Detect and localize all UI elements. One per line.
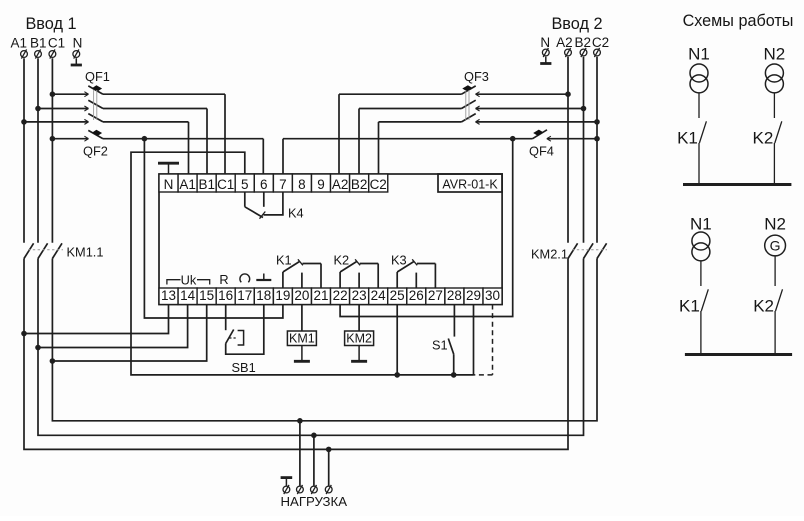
KM2.1 linkage bbox=[572, 249, 607, 251]
wire terminal 14 to B1 bbox=[38, 305, 188, 348]
svg-text:29: 29 bbox=[466, 288, 481, 303]
svg-text:C2: C2 bbox=[592, 35, 609, 50]
svg-text:26: 26 bbox=[409, 288, 424, 303]
svg-text:B2: B2 bbox=[574, 35, 591, 50]
relay contact K3 bbox=[396, 272, 398, 288]
KM1.1 linkage bbox=[28, 249, 63, 251]
svg-text:A2: A2 bbox=[332, 177, 349, 192]
breaker QF3 pole 2 (B2 phase) bbox=[581, 106, 587, 112]
svg-text:27: 27 bbox=[428, 288, 443, 303]
svg-text:QF2: QF2 bbox=[83, 144, 108, 159]
wire B1 below KM1.1 to bus bbox=[38, 259, 584, 436]
contactor KM1.1 pole B1 bbox=[38, 243, 48, 258]
dashed wire terminal 30 bbox=[492, 305, 494, 375]
svg-text:13: 13 bbox=[161, 288, 176, 303]
wire C1 vertical (input1 to KM1.1) bbox=[51, 58, 53, 243]
svg-text:Ввод 2: Ввод 2 bbox=[551, 15, 602, 33]
breaker QF1 pole 1 (C1 phase) bbox=[50, 91, 56, 97]
wire terminal 29 to control line bbox=[473, 305, 475, 375]
svg-text:24: 24 bbox=[371, 288, 387, 303]
svg-text:B1: B1 bbox=[198, 177, 215, 192]
device terminal 21 (bottom row) bbox=[312, 288, 331, 305]
neutral bar input 1 bbox=[75, 58, 77, 65]
device terminal 18 (bottom row) bbox=[254, 288, 273, 305]
svg-text:Uk: Uk bbox=[181, 272, 197, 287]
device terminal 24 (bottom row) bbox=[369, 288, 388, 305]
relay contact K1 bbox=[282, 272, 284, 288]
load terminal N bbox=[283, 486, 290, 493]
svg-text:N1: N1 bbox=[688, 45, 710, 64]
svg-text:25: 25 bbox=[390, 288, 405, 303]
svg-text:QF1: QF1 bbox=[85, 69, 110, 84]
device terminal 8 (top row) bbox=[292, 174, 311, 192]
svg-text:KM1: KM1 bbox=[289, 331, 315, 345]
device terminal 22 (bottom row) bbox=[331, 288, 350, 305]
neutral bar input 2 bbox=[545, 57, 547, 64]
svg-text:N: N bbox=[164, 177, 174, 192]
svg-text:A1: A1 bbox=[11, 36, 28, 51]
load terminal 2 bbox=[311, 486, 318, 493]
svg-text:QF3: QF3 bbox=[464, 69, 489, 84]
wire terminal 22 to QF4 control line bbox=[340, 139, 513, 317]
svg-text:30: 30 bbox=[485, 288, 500, 303]
pushbutton SB1 (terminals 16-18) bbox=[225, 305, 227, 331]
svg-text:S1: S1 bbox=[432, 337, 448, 352]
device terminal N (top row) bbox=[159, 174, 178, 192]
device terminal 14 (bottom row) bbox=[178, 288, 197, 305]
svg-text:14: 14 bbox=[180, 288, 196, 303]
wire terminal 15 to C1 bbox=[52, 305, 206, 362]
device terminal 26 (bottom row) bbox=[407, 288, 426, 305]
svg-text:K1: K1 bbox=[276, 253, 292, 268]
switch S1 (terminal 28) bbox=[453, 305, 455, 337]
junction QF2 line to terminal 19 drop bbox=[142, 136, 148, 142]
svg-text:N1: N1 bbox=[690, 215, 712, 234]
device terminal A1 (top row) bbox=[178, 174, 197, 192]
breaker QF4 (control phase C2) bbox=[282, 139, 284, 174]
relay contact K2 bbox=[339, 272, 341, 288]
breaker QF2 (control phase C1) bbox=[50, 136, 56, 142]
breaker QF1 pole 3 (A1 phase) bbox=[21, 119, 27, 125]
contactor KM1.1 pole C1 bbox=[52, 243, 62, 258]
load tap phase C bbox=[297, 418, 303, 424]
svg-text:K2: K2 bbox=[334, 253, 350, 268]
svg-text:A1: A1 bbox=[179, 177, 196, 192]
svg-text:N: N bbox=[540, 35, 550, 50]
svg-text:K2: K2 bbox=[753, 296, 774, 315]
load neutral bar bbox=[285, 478, 287, 486]
KM1 ground bbox=[301, 346, 303, 362]
svg-text:21: 21 bbox=[313, 288, 328, 303]
device terminal 9 (top row) bbox=[312, 174, 331, 192]
wire C1 below KM1.1 to bus bbox=[52, 259, 597, 421]
svg-text:18: 18 bbox=[256, 288, 271, 303]
device terminal 16 (bottom row) bbox=[216, 288, 235, 305]
svg-text:QF4: QF4 bbox=[529, 144, 554, 159]
relay contact K4 (terminals 5-6-7) bbox=[244, 192, 246, 207]
device terminal A2 (top row) bbox=[331, 174, 350, 192]
svg-text:17: 17 bbox=[237, 288, 252, 303]
svg-text:Ввод 1: Ввод 1 bbox=[25, 15, 76, 33]
device terminal B1 (top row) bbox=[197, 174, 216, 192]
device terminal 13 (bottom row) bbox=[159, 288, 178, 305]
svg-text:C1: C1 bbox=[48, 36, 65, 51]
svg-text:N2: N2 bbox=[764, 45, 786, 64]
svg-text:B2: B2 bbox=[351, 177, 368, 192]
device terminal 19 (bottom row) bbox=[273, 288, 292, 305]
KM2 ground bbox=[358, 346, 360, 362]
device terminal C1 (top row) bbox=[216, 174, 235, 192]
device terminal B2 (top row) bbox=[350, 174, 369, 192]
svg-text:9: 9 bbox=[317, 177, 325, 192]
device terminal 20 (bottom row) bbox=[292, 288, 311, 305]
contactor coil KM2 bbox=[358, 305, 360, 332]
device terminal 30 (bottom row) bbox=[483, 288, 502, 305]
device terminal 7 (top row) bbox=[273, 174, 292, 192]
load tap phase B bbox=[311, 433, 317, 439]
svg-text:28: 28 bbox=[447, 288, 462, 303]
wire A2 vertical (input2 to KM2.1) bbox=[567, 57, 569, 243]
svg-text:6: 6 bbox=[260, 177, 268, 192]
breaker QF3 linkage bbox=[465, 90, 467, 120]
svg-text:15: 15 bbox=[199, 288, 214, 303]
contactor KM2.1 pole B2 bbox=[584, 243, 594, 258]
contactor KM2.1 pole A2 bbox=[568, 243, 578, 258]
svg-text:8: 8 bbox=[298, 177, 306, 192]
svg-text:НАГРУЗКА: НАГРУЗКА bbox=[281, 494, 348, 509]
neutral bar above device terminal N bbox=[168, 163, 170, 174]
svg-text:C1: C1 bbox=[217, 177, 234, 192]
svg-text:K3: K3 bbox=[391, 253, 407, 268]
svg-text:19: 19 bbox=[275, 288, 290, 303]
device terminal C2 (top row) bbox=[369, 174, 388, 192]
rotation symbol (terminal 17) bbox=[240, 274, 250, 282]
wire A1 vertical (input1 to KM1.1) bbox=[23, 58, 25, 243]
device terminal 27 (bottom row) bbox=[426, 288, 445, 305]
wire terminal 25 to control line bbox=[396, 305, 398, 375]
Uk bracket (terminals 13-15) bbox=[167, 280, 181, 285]
svg-text:N2: N2 bbox=[764, 215, 786, 234]
breaker QF1 linkage bbox=[93, 90, 95, 120]
wire terminal 5 to control bottom line bbox=[131, 152, 474, 375]
wire A1 below KM1.1 to bus bbox=[24, 259, 568, 450]
svg-text:5: 5 bbox=[241, 177, 249, 192]
svg-text:B1: B1 bbox=[30, 36, 47, 51]
svg-text:23: 23 bbox=[352, 288, 367, 303]
wire terminal 13 to A1 bbox=[24, 305, 169, 334]
load terminal 3 bbox=[325, 486, 332, 493]
device terminal 23 (bottom row) bbox=[350, 288, 369, 305]
device terminal 17 (bottom row) bbox=[235, 288, 254, 305]
contactor coil KM1 bbox=[301, 305, 303, 332]
svg-text:16: 16 bbox=[218, 288, 233, 303]
svg-text:20: 20 bbox=[294, 288, 309, 303]
wire C2 vertical (input2 to KM2.1) bbox=[596, 57, 598, 243]
svg-text:R: R bbox=[219, 272, 228, 287]
svg-text:K1: K1 bbox=[679, 296, 700, 315]
svg-text:N: N bbox=[73, 36, 83, 51]
breaker QF3 pole 1 (A2 phase) bbox=[565, 91, 571, 97]
ground symbol (terminal 18) bbox=[263, 274, 265, 281]
load tap phase A bbox=[326, 447, 332, 453]
breaker QF3 pole 3 (C2 phase) bbox=[594, 119, 600, 125]
svg-text:K1: K1 bbox=[677, 128, 698, 147]
svg-text:Схемы работы: Схемы работы bbox=[683, 12, 794, 30]
busbar (scheme) bbox=[685, 353, 792, 356]
contactor KM1.1 pole A1 bbox=[24, 243, 34, 258]
device terminal 6 (top row) bbox=[254, 174, 273, 192]
device terminal 29 (bottom row) bbox=[464, 288, 483, 305]
svg-text:22: 22 bbox=[333, 288, 348, 303]
device terminal 25 (bottom row) bbox=[388, 288, 407, 305]
svg-text:KM2.1: KM2.1 bbox=[531, 247, 568, 262]
wire terminal 19 to QF2 control line bbox=[144, 139, 283, 318]
svg-text:K4: K4 bbox=[288, 206, 304, 221]
wire B1 vertical (input1 to KM1.1) bbox=[37, 58, 39, 243]
device terminal 15 (bottom row) bbox=[197, 288, 216, 305]
svg-text:KM2: KM2 bbox=[346, 331, 372, 345]
device label box AVR-01-K bbox=[438, 174, 502, 192]
contactor KM2.1 pole C2 bbox=[597, 243, 607, 258]
breaker QF1 pole 2 (B1 phase) bbox=[35, 106, 41, 112]
svg-text:AVR-01-K: AVR-01-K bbox=[442, 178, 498, 192]
busbar (scheme) bbox=[683, 183, 791, 186]
svg-text:G: G bbox=[770, 238, 781, 254]
svg-text:KM1.1: KM1.1 bbox=[67, 245, 104, 260]
device terminal 5 (top row) bbox=[235, 174, 254, 192]
svg-text:SB1: SB1 bbox=[232, 360, 256, 375]
wire B2 vertical (input2 to KM2.1) bbox=[583, 57, 585, 243]
device terminal 28 (bottom row) bbox=[445, 288, 464, 305]
load terminal 1 bbox=[297, 486, 304, 493]
svg-text:C2: C2 bbox=[370, 177, 387, 192]
svg-text:K2: K2 bbox=[753, 128, 774, 147]
device AVR-01-K outline bbox=[159, 174, 502, 305]
svg-text:7: 7 bbox=[279, 177, 287, 192]
